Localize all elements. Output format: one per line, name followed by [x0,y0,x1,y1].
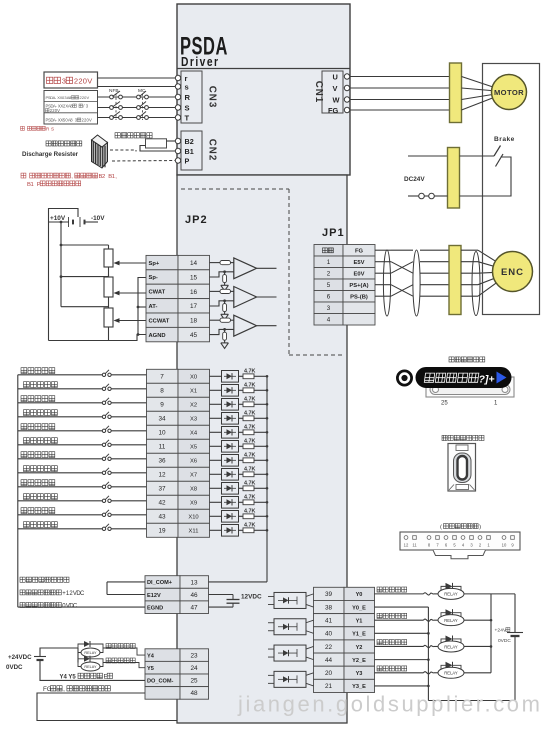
svg-text:+24VDC: +24VDC [8,654,32,661]
label encoder cable head [442,435,484,440]
dashed wire cylinder to B1 [110,149,136,151]
network pin 4 [461,536,465,540]
encoder connector stadium [454,453,472,483]
label internal discharge resistor [115,133,152,138]
digital input row X9 cell [178,495,210,509]
digital input row X1 wire [18,388,102,390]
svg-text:CN2: CN2 [207,139,218,162]
external battery 24V [507,632,523,634]
relay K2 [438,641,464,652]
connector CN3 box [181,71,202,123]
op-amp A1 shunt resistor to ground arrow [224,272,226,275]
output optocoupler U0 wires [306,594,314,597]
resistor 4.7K X1 [239,389,244,391]
digital input row pin 9 cell [147,397,179,411]
terminal R circle [175,94,180,99]
JP2 row CCWAT pin 18 [146,313,178,327]
encoder wires from JP1 [375,249,391,251]
digital input row pin 11 cell [147,439,179,453]
AC supply box 220V [44,72,98,88]
digital input row X4 cell [178,425,210,439]
svg-text:C: C [73,604,78,610]
relay K1 output wire [464,619,491,621]
label digital output Y1 [377,613,407,618]
digital input row X10 label [21,508,55,514]
JP1 row 外壳 FG [314,245,343,257]
svg-text:12: 12 [158,472,166,479]
digital input row X2 cell [178,397,210,411]
brake supply wire bottom with plug [408,195,419,197]
network pin 8 [427,536,431,540]
brake connector yellow bar [448,148,460,209]
svg-text:RELAY: RELAY [84,665,97,669]
wire pot bottom [108,327,110,341]
network pin 3 [470,536,474,540]
digital input row pin 42 cell [147,495,179,509]
model spec text row1 [0,0,1,1]
digital input row X6 wire [18,458,102,460]
digital input row X1 label [24,382,58,388]
connector CN2 box [181,131,202,170]
label digital output Y3 [377,666,407,671]
svg-text:41: 41 [325,617,333,624]
motor circle [492,75,527,110]
svg-text:G: G [47,686,52,693]
svg-text:12: 12 [404,543,409,548]
svg-text:21: 21 [325,683,333,690]
digital input row X3 wire [18,416,102,418]
capacitor 12VDC [209,594,234,596]
output optocoupler U1 box [274,619,306,635]
output return wire Y3_E [375,685,429,687]
resistor 4.7K X10 [239,515,244,517]
svg-text:X3: X3 [190,417,197,423]
svg-text:P: P [185,156,190,165]
digital input row X3 label [24,410,58,416]
terminal s circle [175,84,180,89]
svg-text:7: 7 [160,374,164,381]
wires fan to motor [462,77,509,93]
watermark circle button [397,370,413,386]
svg-text:B2: B2 [185,137,194,146]
svg-text:X5: X5 [190,445,197,451]
network pin 11 [413,536,417,540]
optocoupler input X2 [210,403,222,405]
digital input row X2 switch [102,401,105,404]
crossover E5V/E0V [391,262,413,274]
digital input row X5 wire [18,444,102,446]
digital input row X4 wire [18,430,102,432]
optocoupler input X4 [210,431,222,433]
svg-text:ENC: ENC [501,267,524,278]
resistor 4.7K X5 [239,445,244,447]
digital input row X4 switch [102,429,105,432]
svg-text:X4: X4 [190,431,198,437]
digital input row X4 label [21,424,55,430]
flyback diode D0 [441,586,446,594]
svg-text:19: 19 [158,528,166,535]
svg-text:4.7K: 4.7K [244,410,255,416]
internal discharge resistor box [146,139,167,148]
svg-text:CCWAT: CCWAT [149,318,170,324]
svg-text:S: S [185,103,190,112]
JP1 row 1 E5V [314,256,343,268]
svg-text:8: 8 [160,388,164,395]
svg-text:FG: FG [355,249,364,255]
digital input row X0 wire [18,374,102,376]
watermark pill [416,368,511,388]
digital input row X6 cell [178,453,210,467]
svg-text:2: 2 [327,271,331,278]
output wire Y1 with hop [375,619,424,621]
DB25 connector body [426,377,514,397]
svg-text:DC24V: DC24V [404,176,425,183]
svg-text:-10V: -10V [91,215,105,222]
svg-text:4.7K: 4.7K [244,368,255,374]
brake wire return [460,157,512,196]
wire pot1 feed [61,244,109,246]
label digital output Y2 [377,640,407,645]
svg-text:48: 48 [190,690,198,697]
svg-text:4.7K: 4.7K [244,508,255,514]
relay K3 output wire [464,672,491,674]
svg-text:18: 18 [190,318,198,325]
twisted pair ellipse 2 [413,250,420,316]
svg-text:S: S [51,126,54,131]
output row pin 20 Y3 [314,666,345,679]
svg-text:X2: X2 [190,403,197,409]
svg-text:Y1: Y1 [356,618,363,624]
watermark play triangle [497,372,507,384]
optocoupler input X11 [210,529,222,531]
svg-text:RELAY: RELAY [444,592,458,597]
svg-text:23: 23 [190,652,198,659]
op-amp A1 input resistor [210,262,221,264]
JP1 row 2 E0V [314,268,343,280]
potentiometer VR3 [104,308,113,327]
svg-text:V: V [87,95,90,100]
digital input row X5 label [24,438,58,444]
network pin 6 [444,536,448,540]
op-amp A3 minus wire [210,329,234,334]
terminal B2 circle [175,138,180,143]
connector CN1 box [322,71,343,113]
watermark pill text [424,373,479,382]
svg-text:R: R [46,126,50,131]
svg-text:?]+: ?]+ [479,373,495,385]
potentiometer VR2 [104,277,113,297]
label digital output Y4 [106,644,135,649]
digital input row pin 7 cell [147,369,179,383]
network pin 1 [487,536,491,540]
output row Y5 pin 24 [145,661,180,674]
optocoupler input X0 [210,375,222,377]
digital input row X5 switch [102,443,105,446]
op-amp A2 triangle [234,287,257,308]
wire +24V rail up [40,648,78,657]
relay common bus [490,594,492,673]
optocoupler input X3 [210,417,222,419]
label external discharge resistor cn [46,141,82,146]
output row FG pin 48 [145,687,180,700]
svg-text:AGND: AGND [149,333,166,339]
label +24V [0,0,1,1]
digital input common bus [266,376,268,582]
svg-text:40: 40 [325,631,333,638]
svg-text:25: 25 [441,401,448,407]
output wire Y0 with hop [375,593,424,595]
power row E12V pin 46 [145,588,180,601]
network pin 5 [453,536,457,540]
svg-text:s: s [185,82,189,91]
wire relay K4 to Y4 [103,648,145,655]
svg-text:Brake: Brake [494,136,515,143]
output optocoupler U1 wires [306,620,314,623]
digital input row pin 34 cell [147,411,179,425]
wire R/S/T segment [98,107,176,109]
power row DI_COM+ pin 13 [145,576,180,589]
resistor 4.7K X8 [239,487,244,489]
encoder connector top notch [456,445,468,451]
svg-text:14: 14 [190,260,198,267]
svg-text:E0V: E0V [354,272,365,278]
terminal T circle [175,115,180,120]
output row pin 22 Y2 [314,640,345,653]
output row DO_COM- pin 25 [145,674,180,687]
svg-text:1: 1 [30,182,33,188]
svg-text:47: 47 [190,605,198,612]
JP2 row Sp- pin 15 [146,270,178,284]
svg-text:RELAY: RELAY [444,671,458,676]
digital input row X0 label [21,368,55,374]
svg-text:4.7K: 4.7K [244,396,255,402]
digital input row X6 label [21,452,55,458]
label input common positive [20,577,69,582]
svg-text:46: 46 [190,592,198,599]
network pin 7 [436,536,440,540]
svg-text:RELAY: RELAY [444,618,458,623]
svg-text:10: 10 [502,543,507,548]
digital input row pin 37 cell [147,481,179,495]
svg-text:,: , [115,174,117,180]
power row EGND pin 47 [145,601,180,614]
wiper arrow to VR1 [118,262,147,264]
wire r [98,77,176,79]
wire relay K5 to Y5 [103,663,145,668]
model spec text row2 [0,0,1,1]
motor cable connector yellow bar [450,63,462,123]
contactor MC contacts [137,95,141,99]
svg-text:4.7K: 4.7K [244,522,255,528]
digital input row X8 label [21,480,55,486]
optocoupler input X5 [210,445,222,447]
svg-text:Y0: Y0 [356,592,363,598]
op-amp A1 minus wire [210,272,234,277]
svg-text:E12V: E12V [147,593,161,599]
svg-text:4.7K: 4.7K [244,438,255,444]
relay K1 [438,615,464,626]
svg-text:Y4 Y5: Y4 Y5 [60,675,77,681]
digital input row X1 cell [178,383,210,397]
optocoupler input X10 [210,515,222,517]
output optocoupler U3 wires [306,673,314,676]
svg-text:Y2: Y2 [356,645,363,651]
JP2 row Sp+ pin 14 [146,255,178,269]
svg-text:Y1_E: Y1_E [352,632,366,638]
wire FG straight [391,249,413,251]
digital input row X3 cell [178,411,210,425]
digital input row X0 cell [178,369,210,383]
wire FG loop [37,693,177,721]
relay K2 output wire [464,645,491,647]
terminal W circle [344,97,349,102]
svg-text:44: 44 [325,657,333,664]
model spec text row3 [0,0,1,1]
network connector notch [433,550,486,559]
bottom return wire [428,700,515,702]
bracket wire DI_COM+ to E12V [107,581,145,583]
wire bus to +24V [491,593,515,595]
svg-text:38: 38 [325,604,333,611]
encoder connector bottom notch [456,485,469,490]
driver main body upper block [177,4,350,175]
flyback diode D2 [441,639,446,647]
wire bottom rail to AGND [49,335,147,341]
output row pin 40 Y1_E [314,627,345,640]
wiper arrow to VR3 [118,320,147,322]
svg-text:C: C [80,591,85,597]
svg-text:X11: X11 [189,529,199,535]
JP2 dashed boundary [181,188,289,190]
label internal 0VDC [20,603,61,608]
svg-text:24: 24 [190,665,198,672]
terminal U circle [344,74,349,79]
label control cable head [449,357,485,362]
model spec box [44,91,98,125]
svg-text:15: 15 [190,274,198,281]
wire pot3 feed [61,306,109,308]
digital input row X7 switch [102,471,105,474]
digital input row X11 wire [18,528,102,530]
brake wire top [408,155,448,157]
svg-text:Y0_E: Y0_E [352,605,366,611]
encoder wires to connector [420,249,449,251]
svg-text:MC: MC [138,88,146,94]
svg-text:43: 43 [158,514,166,521]
svg-text:PS+(A): PS+(A) [349,283,368,289]
svg-text:17: 17 [190,303,198,310]
svg-text:DO_COM-: DO_COM- [147,679,174,685]
battery 24VDC user [34,656,46,658]
digital input row X11 cell [178,523,210,537]
output row pin 41 Y1 [314,614,345,627]
note single-phase R S [21,126,46,130]
label dan-xiang 3-xiang 220V [47,77,61,83]
svg-text:Y3: Y3 [356,671,363,677]
battery negative bus [514,636,516,701]
JP2 row AT- pin 17 [146,299,178,313]
svg-text:25: 25 [190,678,198,685]
svg-text:4.7K: 4.7K [244,494,255,500]
wire R/S/T segment [98,96,176,98]
output row pin 44 Y2_E [314,653,345,666]
svg-text:DI_COM+: DI_COM+ [147,580,173,586]
svg-text:16: 16 [190,289,198,296]
svg-text:X9: X9 [190,501,197,507]
digital input row X2 wire [18,402,102,404]
svg-text:X6: X6 [190,459,197,465]
dashed wire cylinder to P [112,160,175,163]
svg-text:E5V: E5V [354,260,365,266]
svg-text:37: 37 [158,486,166,493]
svg-text:45: 45 [190,332,198,339]
label digital output Y5 [106,658,135,663]
svg-text:4: 4 [327,317,331,324]
terminal P circle [175,158,180,163]
wire resistor to B1 [140,146,175,152]
output return bus [427,607,429,700]
op-amp A2 minus wire [210,301,234,306]
svg-text:jiangen.goldsupplier.com: jiangen.goldsupplier.com [237,692,543,717]
svg-text:V: V [57,108,60,113]
op-amp A3 output wire [257,325,277,327]
digital input row pin 10 cell [147,425,179,439]
output optocoupler U2 box [274,645,306,661]
op-amp A1 triangle [234,258,257,279]
output wire Y2 with hop [375,645,424,647]
optocoupler input X9 [210,501,222,503]
relay K4 flyback diode [78,644,84,648]
digital input row pin 36 cell [147,453,179,467]
flyback diode D1 [441,613,446,621]
digital input row pin 8 cell [147,383,179,397]
digital input row X5 cell [178,439,210,453]
digital input row X11 label [24,522,58,528]
svg-text:Y3_E: Y3_E [352,684,366,690]
relay K0 [438,588,464,599]
network pin 12 [404,536,408,540]
svg-text:V: V [89,118,92,123]
output wire Y3 with hop [375,672,424,674]
digital input row X7 cell [178,467,210,481]
potentiometer VR1 [104,249,113,267]
note external resistor line1 [21,173,70,178]
svg-text:10: 10 [158,430,166,437]
breaker NFB gang dashed line [115,94,117,121]
svg-text:4.7K: 4.7K [244,382,255,388]
flyback diode D3 [441,665,446,673]
resistor 4.7K X4 [239,431,244,433]
optocoupler input X6 [210,459,222,461]
svg-text:RELAY: RELAY [84,651,97,655]
external discharge resistor cylinder [92,135,108,168]
terminal B1 circle [175,148,180,153]
output return wire Y1_E [375,632,429,634]
label internal +12VDC [20,590,61,595]
wire pot bottom [108,297,110,307]
output optocoupler U2 wires [306,646,314,649]
digital input row X9 label [24,494,58,500]
digital input row X0 switch [102,373,105,376]
svg-text:,: , [63,686,65,693]
svg-text:U: U [333,72,338,81]
svg-text:X10: X10 [188,515,198,521]
digital input row X10 switch [102,513,105,516]
note external resistor line2 [0,0,1,1]
svg-text:Sp-: Sp- [149,275,158,281]
wire s [98,86,176,88]
op-amp A3 input resistor [210,319,221,321]
